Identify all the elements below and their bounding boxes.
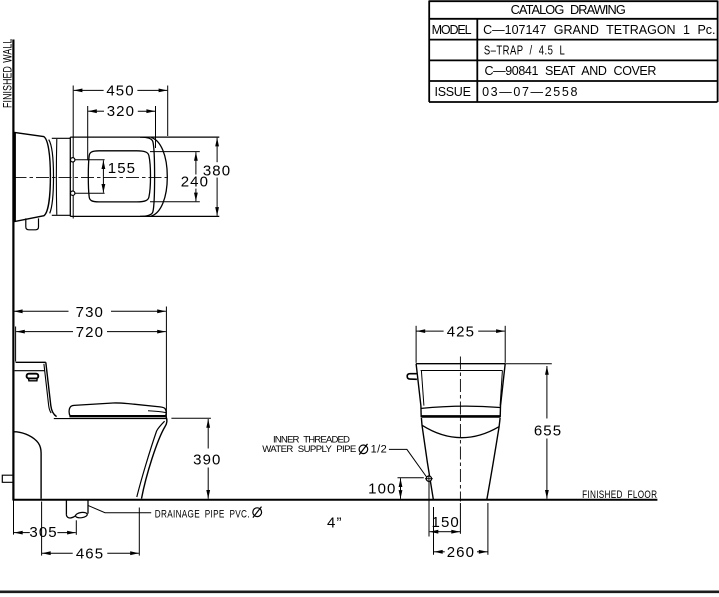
plan: tank body edge curve	[49, 140, 54, 214]
front: tank lid seam	[421, 370, 503, 372]
side: seat bottom line	[69, 415, 165, 417]
plan: cover bottom edge + 380 bottom extension	[70, 215, 219, 217]
svg-text:C—90841 SEAT AND COVER: C—90841 SEAT AND COVER	[485, 64, 658, 78]
side: drainage pipe right wall	[87, 500, 89, 514]
svg-text:CATALOG DRAWING: CATALOG DRAWING	[511, 2, 627, 17]
front: tank right side	[500, 364, 505, 418]
dimension 465	[42, 552, 73, 554]
svg-text:390: 390	[193, 452, 221, 469]
dimension 380	[216, 138, 218, 163]
wall extension below floor	[13, 500, 15, 535]
svg-text:465: 465	[76, 545, 104, 562]
svg-text:MODEL: MODEL	[432, 23, 473, 37]
side: tank top edge	[16, 361, 46, 363]
svg-text:DRAINAGE PIPE PVC.: DRAINAGE PIPE PVC.	[155, 508, 250, 520]
dimension 305	[14, 532, 30, 534]
front: tank top edge	[416, 363, 505, 365]
side: tank front inner edge	[44, 364, 51, 413]
finished floor line	[13, 499, 658, 501]
front: flush lever	[407, 374, 417, 380]
svg-text:03—07—2558: 03—07—2558	[482, 85, 578, 99]
plan: bowl back arc	[55, 139, 57, 215]
svg-text:380: 380	[203, 162, 231, 179]
dimension 450 right extension	[167, 86, 169, 137]
side: seat and cover profile	[69, 403, 166, 416]
plan: hinge bolt circle lower	[71, 191, 75, 195]
side: tank lid seam	[15, 370, 45, 372]
plan: seat opening	[88, 151, 150, 202]
plan: bowl back bottom edge	[52, 214, 71, 216]
dimension 155	[102, 160, 104, 176]
svg-text:655: 655	[534, 423, 562, 440]
dimension 155 extension upper	[75, 159, 104, 161]
dimension 320 right extension	[155, 106, 157, 148]
dimension 155 extension lower	[75, 192, 104, 194]
plan: cover top edge + 380 top extension	[70, 136, 219, 138]
svg-text:C—107147 GRAND TETRAGON 1 Pc.: C—107147 GRAND TETRAGON 1 Pc.	[483, 23, 716, 37]
svg-text:WATER SUPPLY PIPE: WATER SUPPLY PIPE	[262, 444, 357, 455]
svg-text:ISSUE: ISSUE	[435, 85, 472, 99]
bottom border line	[0, 590, 719, 593]
front: centerline below floor	[459, 503, 461, 534]
dimension 100	[400, 478, 402, 488]
plan: tank bottom tab	[26, 218, 39, 229]
side: drainage pipe open end ellipse	[75, 512, 87, 519]
dimension 465 right extension	[138, 508, 140, 556]
plan: cover right side	[140, 137, 155, 216]
dimension 150 left extension	[428, 482, 430, 537]
dimension 390 top extension	[171, 417, 211, 419]
svg-text:FINISHED FLOOR: FINISHED FLOOR	[582, 489, 657, 501]
svg-text:FINISHED WALL: FINISHED WALL	[2, 39, 14, 108]
dimension 150	[430, 531, 445, 533]
dimension 240 extension lower	[150, 201, 200, 203]
drainage diameter symbol	[253, 508, 262, 517]
side: bowl front inner edge	[137, 421, 165, 497]
svg-text:260: 260	[447, 544, 475, 561]
plan: hinge line + 450 left extension	[72, 86, 74, 219]
dimension 425 right extension	[504, 326, 506, 363]
svg-text:4”: 4”	[327, 514, 343, 531]
dimension 260 left extension	[433, 507, 435, 555]
title block table	[429, 1, 718, 103]
side: drainage pipe bottom curve	[66, 515, 75, 518]
side: bowl rim top line	[54, 418, 167, 420]
supply label leader	[389, 449, 427, 477]
front: seat top arc	[421, 406, 500, 408]
dimension 465 left extension	[41, 502, 43, 556]
dimension 720	[16, 331, 73, 333]
plan: centerline	[14, 177, 167, 179]
dimension 450	[74, 89, 104, 91]
svg-text:720: 720	[76, 324, 104, 341]
front: centerline	[459, 357, 461, 502]
dimension 720 left extension	[15, 327, 17, 362]
dimension 390	[207, 419, 209, 449]
svg-text:730: 730	[76, 304, 104, 321]
front: water supply circle	[426, 476, 431, 481]
front: tank inner right line	[500, 371, 502, 406]
dimension 240 extension upper	[150, 151, 200, 153]
supply diameter symbol 1/2	[359, 445, 368, 454]
dimension 730/720 right extension	[165, 307, 167, 419]
side: bowl front outer edge	[142, 416, 167, 498]
plan: bowl rim bulge arc	[151, 138, 167, 217]
plan: bowl back top edge	[52, 137, 71, 139]
front: tank left side	[416, 364, 421, 418]
svg-text:S–TRAP / 4.5 L: S–TRAP / 4.5 L	[484, 44, 565, 58]
svg-text:150: 150	[432, 514, 460, 531]
dimension 260 right extension	[487, 503, 489, 555]
side: flush lever	[27, 374, 39, 379]
front: pedestal left side	[421, 418, 433, 499]
dimension 305 right extension	[75, 520, 77, 535]
front: pedestal right side	[487, 418, 500, 499]
svg-text:425: 425	[447, 323, 475, 340]
plan: hinge bolt circle upper	[71, 158, 75, 162]
side: water supply stub at wall	[2, 475, 13, 482]
dimension 240	[195, 152, 197, 174]
dimension 730	[14, 310, 69, 312]
dimension 425 left extension	[415, 326, 417, 363]
svg-text:320: 320	[107, 103, 135, 120]
finished wall line	[12, 40, 14, 501]
svg-text:1/2: 1/2	[371, 444, 388, 456]
dimension 260	[434, 551, 445, 553]
plan: tank lid outline	[15, 133, 50, 222]
side: seat ring split line	[148, 411, 166, 413]
svg-text:305: 305	[29, 524, 57, 541]
side: drainage pipe left wall	[65, 500, 67, 515]
dimension 655	[546, 366, 548, 419]
dimension 655 top extension	[505, 363, 552, 365]
side: tank front outer edge	[46, 362, 57, 416]
front: tank inner left line	[421, 371, 424, 406]
front: seat heavy band	[421, 415, 500, 418]
dimension 425	[417, 330, 444, 332]
dimension 320 left extension	[87, 106, 89, 160]
svg-text:450: 450	[106, 82, 134, 99]
svg-text:100: 100	[368, 480, 396, 497]
svg-text:155: 155	[108, 160, 136, 177]
drainage label leader	[88, 506, 151, 513]
front: bowl bottom arc	[422, 425, 499, 437]
dimension 320	[88, 110, 104, 112]
side: body back outline	[14, 432, 41, 499]
supply circle extension line	[398, 477, 424, 479]
plan: cover left edge	[69, 137, 71, 216]
